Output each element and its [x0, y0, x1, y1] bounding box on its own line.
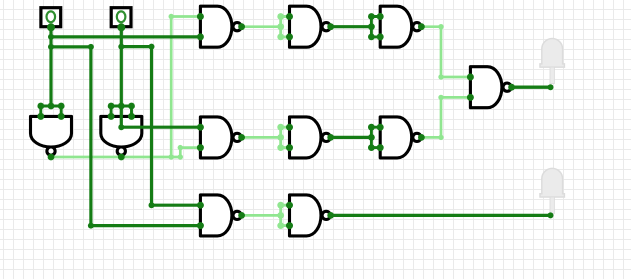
node U6b tied inputs: [368, 124, 378, 151]
wire input1 branch to U8 input B: [51, 44, 200, 229]
node U7 tied inputs: [108, 103, 135, 115]
wire input2 branch to U8 input A: [118, 44, 200, 209]
node U9 tied inputs: [277, 202, 287, 229]
U2 pins: [286, 13, 334, 40]
U1 pins: [197, 13, 245, 40]
U5 pins: [286, 124, 334, 151]
wire U6b output to U10 input B: [421, 95, 470, 140]
wire U3 output to U10 input A: [421, 24, 470, 80]
wire input1 to U1 input B: [51, 35, 200, 38]
wire U6 output net: [51, 154, 183, 159]
U10 pins: [467, 74, 515, 101]
wire U6 output to U1 input A: [169, 14, 201, 157]
wire U8 output to U9 inputs: [242, 214, 281, 217]
U7 pins: [108, 113, 135, 161]
NAND gate U9 body: [290, 195, 331, 236]
node U5 tied inputs: [277, 124, 287, 151]
LED D2 (off): [540, 168, 564, 213]
wire input1 vertical net: [48, 27, 54, 106]
U8 pins: [197, 202, 245, 229]
node U6 tied inputs: [37, 103, 64, 115]
U3 pins: [377, 13, 425, 40]
NAND gate U3 body: [380, 6, 421, 47]
SW2 output pin: [117, 23, 125, 31]
wire U2 output to U3 inputs: [331, 25, 372, 28]
LED D1 (off): [540, 39, 564, 84]
U4 pins: [197, 124, 245, 151]
wire U1 output to U2 inputs: [242, 25, 281, 28]
U6 pins: [37, 113, 64, 161]
wire U10 output to LED D1: [512, 84, 554, 90]
wire U4 output to U5 inputs: [242, 136, 281, 139]
NAND gate U1 body: [200, 6, 241, 47]
SW1 output pin: [47, 23, 55, 31]
NAND gate U6b body: [380, 117, 421, 158]
node U2 tied inputs: [277, 13, 287, 40]
node U3 tied inputs: [368, 13, 378, 40]
U6b pins: [377, 124, 425, 151]
input switch SW2 value 0: [111, 8, 131, 27]
NAND gate U10 body: [470, 67, 511, 108]
NAND gate U7 body (NOT of input2): [101, 116, 142, 155]
wire U5 output to U6b inputs: [331, 136, 372, 139]
NAND gate U5 body: [290, 117, 331, 158]
NAND gate U4 body: [200, 117, 241, 158]
NAND gate U6 body (NOT of input1): [31, 116, 72, 155]
NAND gate U8 body: [200, 195, 241, 236]
wire input2 vertical net to U4 input A: [118, 27, 200, 131]
NAND gate U2 body: [290, 6, 331, 47]
wire U9 output to LED D2: [331, 212, 554, 218]
input switch SW1 value 0: [41, 8, 61, 27]
U9 pins: [286, 202, 334, 229]
wire U6 output to U4 input B: [178, 145, 201, 157]
